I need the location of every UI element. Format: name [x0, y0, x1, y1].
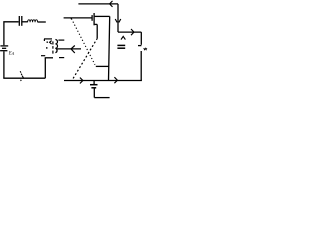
svg-text:EA: EA [8, 51, 15, 56]
